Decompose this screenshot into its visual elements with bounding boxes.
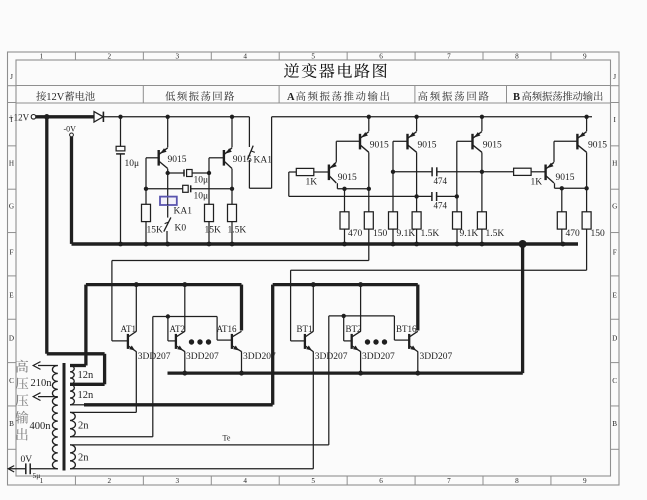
wire W1 top thick bbox=[70, 364, 86, 367]
svg-text:9: 9 bbox=[583, 52, 587, 60]
diode D1 bbox=[94, 112, 103, 122]
svg-text:B: B bbox=[513, 92, 520, 103]
primary winding 210n+400n bbox=[52, 366, 57, 469]
ruler column numbers bbox=[40, 52, 587, 485]
node QL1 base capB bbox=[144, 187, 148, 191]
svg-text:J: J bbox=[613, 73, 616, 81]
transistor QH2 9015 bbox=[471, 134, 473, 150]
secondary winding 12n W2 bbox=[70, 384, 75, 405]
svg-text:+12V: +12V bbox=[9, 112, 30, 122]
wire +12V drop bbox=[45, 117, 48, 354]
ellipsis AT parallel bbox=[189, 339, 194, 344]
node QH1 base net bbox=[391, 170, 395, 174]
svg-text:9015: 9015 bbox=[168, 155, 187, 165]
wire 5u to primary bbox=[30, 468, 58, 470]
wire BT base box bbox=[329, 315, 395, 317]
svg-text:1.5K: 1.5K bbox=[421, 229, 440, 239]
svg-text:9015: 9015 bbox=[556, 173, 575, 183]
svg-text:6: 6 bbox=[379, 52, 383, 60]
node BT2 emitter bus bbox=[358, 371, 363, 376]
node QH1 collector net bbox=[414, 194, 418, 198]
transistor QL1 9015 bbox=[157, 150, 159, 166]
svg-text:9015: 9015 bbox=[338, 173, 357, 183]
primary top terminal arrow bbox=[38, 365, 58, 367]
svg-text:400n: 400n bbox=[30, 421, 52, 432]
secondary winding 12n W1 bbox=[70, 366, 74, 385]
transistor QA1 9015 bbox=[328, 165, 330, 181]
wire BT2 base bbox=[343, 316, 345, 341]
wire BT2 collector bbox=[360, 285, 362, 332]
node AT2 base box bbox=[166, 314, 170, 318]
capacitor C3 10u coupling bbox=[146, 188, 183, 190]
wire R4 feedback loop bbox=[288, 172, 290, 196]
secondary winding 2n W3 bbox=[70, 412, 75, 436]
node BT1 collector bus bbox=[311, 282, 316, 287]
svg-text:4: 4 bbox=[243, 52, 247, 60]
wire top rail left bbox=[103, 116, 249, 118]
svg-text:KA1: KA1 bbox=[174, 207, 193, 217]
wire AT1 collector bbox=[135, 285, 137, 332]
svg-text:B: B bbox=[9, 420, 14, 428]
svg-text:1K: 1K bbox=[306, 178, 318, 188]
wire QL2 base bbox=[209, 157, 224, 159]
transformer core bbox=[63, 363, 66, 471]
node QH2 collector net bbox=[480, 170, 484, 174]
node QL2 emitter rail bbox=[230, 115, 234, 119]
svg-text:0V: 0V bbox=[21, 455, 33, 465]
svg-text:7: 7 bbox=[447, 477, 451, 485]
wire QH1 collector bbox=[416, 152, 418, 211]
transistor QA2 9015 bbox=[359, 134, 361, 150]
capacitor C2 10u coupling bbox=[168, 172, 184, 174]
svg-text:J: J bbox=[10, 73, 13, 81]
svg-text:3DD207: 3DD207 bbox=[243, 352, 276, 362]
wire QL1 emitter bbox=[167, 117, 169, 148]
wire BT2 emitter bbox=[360, 351, 362, 373]
node 0V rail 15K2 bbox=[207, 242, 212, 247]
resistor R5 470 bbox=[344, 189, 346, 212]
transistor QL2 9015 bbox=[223, 150, 225, 166]
wire W2 bottom thick bbox=[70, 404, 85, 406]
svg-text:A: A bbox=[287, 92, 295, 103]
svg-text:1.5K: 1.5K bbox=[228, 225, 247, 235]
svg-text:K0: K0 bbox=[175, 224, 187, 234]
svg-text:9.1K: 9.1K bbox=[460, 229, 479, 239]
svg-text:3DD207: 3DD207 bbox=[420, 352, 453, 362]
transistor AT1 3DD207 bbox=[127, 334, 129, 349]
svg-text:4: 4 bbox=[243, 477, 247, 485]
svg-text:470: 470 bbox=[348, 229, 363, 239]
svg-text:8: 8 bbox=[515, 52, 519, 60]
capacitor C5 474 bbox=[431, 192, 433, 201]
ellipsis BT parallel bbox=[365, 339, 370, 344]
node 0V rail 1.5KH bbox=[414, 242, 419, 247]
wire QA2 emitter bbox=[368, 117, 370, 131]
svg-text:9015: 9015 bbox=[483, 141, 502, 151]
wire QH1 base bbox=[393, 140, 408, 142]
wire QH2 base bbox=[457, 140, 473, 142]
node QL2 base capA bbox=[207, 171, 211, 175]
svg-text:1.5K: 1.5K bbox=[486, 229, 505, 239]
resistor R9 9.1K bbox=[456, 196, 458, 211]
svg-text:Te: Te bbox=[223, 434, 231, 443]
svg-text:1: 1 bbox=[40, 52, 44, 60]
node 0V rail 15K bbox=[144, 242, 149, 247]
resistor R6 150 bbox=[368, 189, 370, 212]
resistor R12 470 bbox=[561, 188, 563, 212]
resistor R10 1.5K bbox=[477, 212, 486, 229]
node 0V rail 9.1K bbox=[391, 242, 396, 247]
svg-text:D: D bbox=[612, 335, 617, 343]
wire AT1 emitter to winding bbox=[135, 351, 137, 412]
wire BT bus left drop thick bbox=[271, 285, 274, 405]
svg-text:G: G bbox=[9, 203, 14, 211]
wire AT2 base bbox=[167, 317, 169, 341]
node A collector net 150 bbox=[367, 187, 371, 191]
node AT1 collector bus bbox=[134, 282, 139, 287]
svg-text:8: 8 bbox=[515, 477, 519, 485]
svg-text:10μ: 10μ bbox=[125, 159, 140, 169]
wire QB1 collector bbox=[554, 183, 556, 188]
svg-text:E: E bbox=[613, 292, 618, 300]
wire QA1 emitter to QA2 base bbox=[335, 141, 337, 162]
node 0V rail 10u bbox=[118, 242, 123, 247]
svg-text:5μ: 5μ bbox=[33, 471, 41, 480]
wire QL1 base bbox=[146, 157, 159, 159]
wire 0V rail thick bbox=[72, 242, 579, 246]
wire QL2 collector bbox=[231, 169, 233, 205]
transistor QB1 9015 bbox=[544, 165, 546, 181]
svg-text:BT16: BT16 bbox=[396, 324, 417, 334]
transistor BT1 3DD207 bbox=[304, 334, 306, 349]
svg-text:2n: 2n bbox=[78, 452, 89, 463]
node 0V rail K0 bbox=[165, 242, 170, 247]
capacitor C4 474 bbox=[393, 171, 432, 173]
node AT16 emitter bus bbox=[239, 371, 244, 376]
wire BT16 emitter bbox=[417, 351, 419, 373]
node B collector net 470 bbox=[560, 186, 564, 190]
wire AT1 base feed bbox=[112, 260, 369, 262]
svg-text:9: 9 bbox=[583, 477, 587, 485]
wire BT collector bus thick bbox=[273, 283, 418, 286]
svg-text:F: F bbox=[10, 248, 14, 256]
wire AT16 base bbox=[216, 317, 218, 341]
ruler row letters bbox=[9, 73, 618, 428]
resistor R7 9.1K bbox=[389, 212, 398, 229]
node A collector net 470 bbox=[342, 187, 346, 191]
svg-text:C: C bbox=[9, 377, 14, 385]
wire BT1 base feed bbox=[291, 269, 587, 271]
transistor QB2 9015 bbox=[576, 134, 578, 150]
section label 低频振荡回路 bbox=[165, 91, 234, 101]
wire 0V drop thick bbox=[70, 137, 73, 244]
svg-text:3DD207: 3DD207 bbox=[138, 352, 171, 362]
node QL1 collector capA bbox=[166, 171, 170, 175]
svg-text:H: H bbox=[9, 160, 14, 168]
transistor AT16 3DD207 bbox=[231, 334, 233, 349]
section label A高频振荡推动输出 bbox=[287, 91, 389, 103]
title 逆变器电路图 bbox=[284, 63, 387, 78]
wire BT1 emitter to winding bbox=[312, 351, 314, 468]
resistor R3 1.5K bbox=[228, 204, 237, 221]
wire QH2 collector bbox=[481, 152, 483, 211]
svg-text:9015: 9015 bbox=[418, 141, 437, 151]
wire QB2 collector bbox=[586, 152, 588, 188]
wire 0V arrow bbox=[9, 468, 26, 470]
svg-text:12n: 12n bbox=[78, 370, 95, 381]
svg-text:150: 150 bbox=[591, 229, 606, 239]
wire QA1 collector bbox=[336, 183, 338, 189]
node QH2 base net bbox=[455, 194, 459, 198]
svg-text:3DD207: 3DD207 bbox=[186, 352, 219, 362]
node QL1 emitter rail bbox=[166, 115, 170, 119]
svg-text:470: 470 bbox=[566, 229, 581, 239]
wire QH2 emitter bbox=[481, 117, 483, 131]
wire QL1 collector bbox=[167, 169, 169, 197]
svg-text:3DD207: 3DD207 bbox=[362, 352, 395, 362]
svg-text:D: D bbox=[9, 335, 14, 343]
relay contact KA1 bbox=[248, 117, 250, 147]
svg-text:7: 7 bbox=[447, 52, 451, 60]
node BT2 collector bus bbox=[358, 282, 363, 287]
svg-text:3: 3 bbox=[175, 52, 179, 60]
wire BT16 base bbox=[393, 316, 395, 340]
svg-text:474: 474 bbox=[434, 201, 448, 211]
node 0V rail 9.1K2 bbox=[455, 242, 460, 247]
svg-text:150: 150 bbox=[373, 229, 388, 239]
svg-text:9015: 9015 bbox=[233, 155, 252, 165]
node 0V rail 1.5KH2 bbox=[480, 242, 485, 247]
svg-text:15K: 15K bbox=[205, 225, 222, 235]
node QH1 emitter rail bbox=[414, 115, 418, 119]
wire AT2 collector bbox=[184, 285, 186, 332]
resistor R13 150 bbox=[586, 188, 588, 212]
svg-text:C: C bbox=[612, 377, 617, 385]
svg-text:10μ: 10μ bbox=[194, 192, 209, 202]
svg-text:3DD207: 3DD207 bbox=[315, 352, 348, 362]
node B collector net 150 bbox=[584, 186, 588, 190]
switch K0 bbox=[164, 217, 171, 231]
node QA2 emitter rail bbox=[367, 115, 371, 119]
svg-text:E: E bbox=[9, 292, 14, 300]
resistor R1 15K bbox=[142, 204, 151, 221]
svg-text:9.1K: 9.1K bbox=[397, 229, 416, 239]
wire QB2 emitter bbox=[586, 117, 588, 131]
svg-text:G: G bbox=[612, 203, 617, 211]
wire AT bus left drop thick bbox=[84, 285, 87, 366]
svg-text:H: H bbox=[612, 160, 617, 168]
transistor QH1 9015 bbox=[406, 134, 408, 150]
label 高压压输出 bbox=[15, 360, 28, 441]
node 0V rail big junction bbox=[519, 240, 527, 248]
wire BT1 collector bbox=[312, 285, 314, 332]
capacitor C6 5u bbox=[25, 463, 27, 474]
wire QH1 emitter bbox=[416, 117, 418, 131]
wire QA2 collector bbox=[368, 152, 370, 188]
svg-text:BT2: BT2 bbox=[346, 324, 362, 334]
ruler column ticks bbox=[74, 52, 76, 60]
wire top rail right bbox=[272, 116, 592, 118]
ruler row ticks bbox=[8, 85, 17, 87]
node 0V rail 470B bbox=[561, 242, 566, 247]
wire AT collector bus thick bbox=[86, 283, 242, 286]
wire QL2 emitter bbox=[231, 117, 233, 148]
svg-text:2: 2 bbox=[108, 477, 112, 485]
svg-text:V: V bbox=[57, 92, 65, 103]
secondary winding 2n W4 bbox=[70, 445, 75, 469]
node AT2 collector bus bbox=[182, 282, 187, 287]
node QB2 emitter rail bbox=[584, 115, 588, 119]
wire AT16 emitter bbox=[241, 351, 243, 373]
wire 0V to emitter bus thick bbox=[521, 244, 524, 373]
svg-text:474: 474 bbox=[434, 176, 448, 186]
svg-text:2n: 2n bbox=[78, 420, 89, 431]
svg-text:KA1: KA1 bbox=[254, 155, 273, 165]
section label B高频振荡推动输出 bbox=[513, 91, 603, 103]
border frame inner bbox=[16, 60, 611, 476]
transistor AT2 3DD207 bbox=[175, 334, 177, 349]
node 10u top bbox=[118, 115, 122, 119]
svg-text:BT1: BT1 bbox=[297, 324, 313, 334]
primary tap arrow bbox=[38, 396, 58, 398]
svg-text:B: B bbox=[612, 420, 617, 428]
svg-text:15K: 15K bbox=[147, 225, 164, 235]
relay coil KA1 bbox=[160, 197, 177, 205]
svg-text:AT16: AT16 bbox=[217, 324, 237, 334]
svg-text:F: F bbox=[613, 248, 617, 256]
svg-text:12n: 12n bbox=[78, 390, 95, 401]
node 0V rail 1.5K bbox=[230, 242, 235, 247]
resistor R4 1K bbox=[289, 171, 297, 173]
svg-text:10μ: 10μ bbox=[194, 176, 209, 186]
node BT16 emitter bus bbox=[415, 371, 420, 376]
node AT2 emitter bus bbox=[182, 371, 187, 376]
node QL2 collector capB bbox=[230, 187, 234, 191]
label band lines bbox=[16, 85, 611, 87]
capacitor C1 10u bbox=[120, 117, 122, 147]
section label 高频振荡回路 bbox=[418, 91, 489, 101]
wire AT2 emitter bbox=[184, 351, 186, 373]
wire center tap thick bbox=[70, 383, 105, 386]
svg-text:5: 5 bbox=[311, 477, 315, 485]
transistor BT2 3DD207 bbox=[351, 334, 353, 349]
resistor R2 15K bbox=[205, 204, 214, 221]
node battery junction bbox=[44, 114, 50, 120]
svg-text:210n: 210n bbox=[31, 378, 53, 389]
node 0V rail 470A bbox=[342, 242, 347, 247]
wire emitter bus thick bbox=[168, 371, 523, 374]
transistor BT16 3DD207 bbox=[408, 334, 410, 349]
wire QB1 emitter to QB2 base bbox=[553, 141, 555, 162]
svg-text:AT1: AT1 bbox=[121, 324, 137, 334]
svg-text:1K: 1K bbox=[531, 178, 543, 188]
wire AT bus right drop thick bbox=[240, 285, 243, 331]
svg-text:3: 3 bbox=[175, 477, 179, 485]
section label 接12V蓄电池 bbox=[36, 91, 95, 103]
node BT2 base box bbox=[342, 314, 346, 318]
svg-text:6: 6 bbox=[379, 477, 383, 485]
svg-text:-0V: -0V bbox=[64, 124, 77, 133]
resistor R11 1K bbox=[482, 171, 514, 173]
wire BT bus right drop thick bbox=[416, 285, 419, 331]
resistor R8 1.5K bbox=[412, 212, 421, 229]
svg-text:2: 2 bbox=[108, 52, 112, 60]
svg-text:9015: 9015 bbox=[588, 141, 607, 151]
node QH2 emitter rail bbox=[480, 115, 484, 119]
svg-text:5: 5 bbox=[311, 52, 315, 60]
svg-text:AT2: AT2 bbox=[170, 324, 186, 334]
svg-text:9015: 9015 bbox=[370, 141, 389, 151]
wire AT base box bbox=[153, 316, 217, 318]
wire +12V thick bbox=[36, 115, 94, 118]
